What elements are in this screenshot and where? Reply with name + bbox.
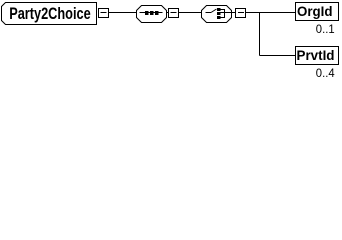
collapse toggle 2 (minus)	[167, 9, 179, 18]
sequence compositor octagon	[137, 6, 167, 23]
svg-text:Party2Choice: Party2Choice	[9, 4, 91, 23]
wire from collapse 2 to choice	[179, 12, 202, 14]
svg-text:OrgId: OrgId	[297, 3, 333, 19]
wire from collapse 1 to sequence	[109, 12, 137, 14]
svg-text:0..4: 0..4	[316, 66, 335, 80]
element Party2Choice box	[2, 3, 97, 25]
choice compositor octagon	[202, 6, 232, 23]
svg-text:0..1: 0..1	[316, 22, 335, 36]
svg-text:PrvtId: PrvtId	[297, 47, 335, 63]
element PrvtId box	[296, 47, 339, 65]
wire to PrvtId (bottom branch)	[260, 55, 296, 57]
wire from choice collapse to OrgId (top branch)	[246, 12, 296, 14]
vertical branch wire	[259, 13, 261, 56]
element OrgId box	[296, 3, 339, 21]
collapse toggle 1 (minus)	[99, 9, 109, 18]
collapse toggle 3 (minus)	[232, 9, 246, 18]
